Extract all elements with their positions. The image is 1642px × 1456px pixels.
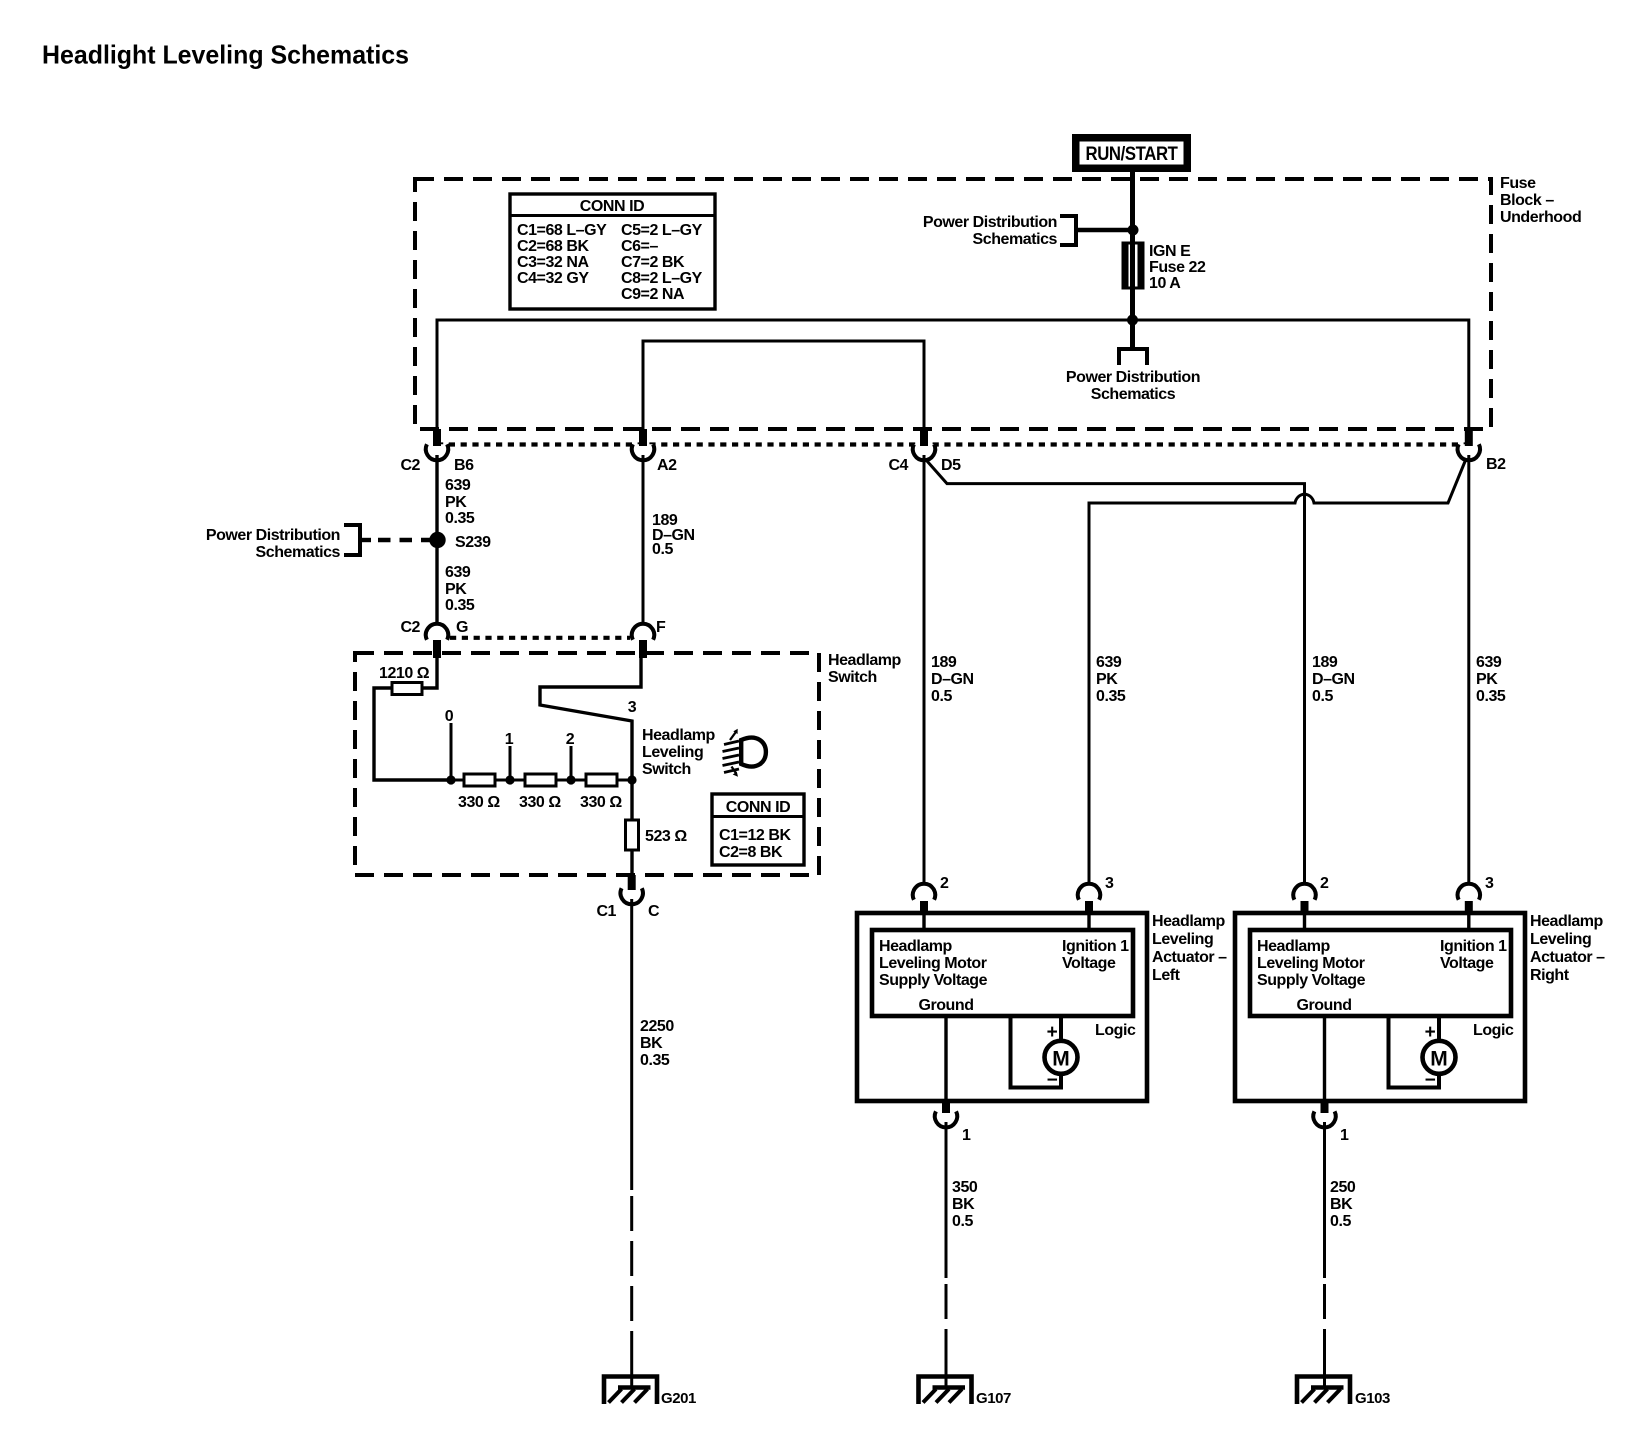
connector pin 2 right [1293, 875, 1329, 913]
svg-text:0.5: 0.5 [1312, 688, 1333, 705]
svg-text:Schematics: Schematics [1091, 386, 1176, 403]
branch B2 to left actuator pin 3 with hop [1089, 459, 1466, 888]
svg-text:Ignition 1: Ignition 1 [1062, 938, 1129, 955]
svg-text:0.5: 0.5 [1330, 1213, 1351, 1230]
ground wire left actuator [944, 1016, 947, 1101]
svg-text:C2=68 BK: C2=68 BK [517, 238, 589, 255]
svg-text:639: 639 [445, 477, 471, 494]
connector B2 [1458, 429, 1507, 473]
svg-text:B6: B6 [454, 457, 474, 474]
svg-text:1210 Ω: 1210 Ω [379, 665, 430, 682]
svg-text:330 Ω: 330 Ω [458, 794, 500, 811]
svg-text:Actuator –: Actuator – [1530, 949, 1605, 966]
svg-text:Ground: Ground [1296, 997, 1351, 1014]
svg-text:Leveling: Leveling [642, 744, 703, 761]
svg-text:Leveling: Leveling [1530, 931, 1591, 948]
svg-text:Headlamp: Headlamp [828, 652, 902, 669]
ground G107 [919, 1377, 1012, 1408]
connector pin 3 left [1078, 875, 1114, 913]
bus wire lower y341 [643, 341, 924, 446]
svg-text:Leveling: Leveling [1152, 931, 1213, 948]
svg-text:C1=12 BK: C1=12 BK [719, 827, 791, 844]
wire 639 PK B6 to S239 to G [435, 455, 438, 626]
svg-text:Underhood: Underhood [1500, 209, 1581, 226]
ground G103 [1297, 1377, 1390, 1408]
svg-text:G103: G103 [1355, 1390, 1390, 1407]
headlamp leveling switch icon [723, 729, 766, 777]
svg-text:2: 2 [940, 875, 949, 892]
svg-text:639: 639 [445, 564, 471, 581]
svg-text:D–GN: D–GN [931, 671, 974, 688]
svg-text:A2: A2 [657, 457, 677, 474]
svg-text:Headlight Leveling Schematics: Headlight Leveling Schematics [42, 40, 409, 70]
svg-text:C2: C2 [400, 619, 420, 636]
svg-text:G107: G107 [976, 1390, 1011, 1407]
svg-text:Leveling Motor: Leveling Motor [1257, 955, 1365, 972]
svg-text:Left: Left [1152, 967, 1181, 984]
svg-text:−: − [1425, 1070, 1436, 1091]
wire RUN/START to fuse [1130, 172, 1135, 243]
svg-text:3: 3 [1485, 875, 1494, 892]
switch resistor ladder [445, 708, 637, 811]
svg-text:BK: BK [1330, 1196, 1353, 1213]
svg-text:S239: S239 [455, 534, 491, 551]
svg-text:0.5: 0.5 [931, 688, 952, 705]
svg-text:Ignition 1: Ignition 1 [1440, 938, 1507, 955]
svg-text:3: 3 [628, 699, 637, 716]
resistor 330 #1 [464, 774, 495, 786]
svg-text:Logic: Logic [1473, 1022, 1514, 1039]
headlamp switch dashed box [355, 653, 819, 875]
right actuator outer box [1235, 913, 1525, 1101]
wire 639 PK B2 to right actuator pin 3 [1467, 455, 1470, 888]
node 3 junction [627, 775, 636, 784]
svg-text:C2=8 BK: C2=8 BK [719, 844, 783, 861]
connector pin 2 left [913, 875, 949, 913]
svg-text:Voltage: Voltage [1440, 955, 1494, 972]
svg-text:639: 639 [1096, 654, 1122, 671]
svg-text:M: M [1430, 1048, 1448, 1071]
svg-text:0.35: 0.35 [445, 510, 475, 527]
svg-text:Logic: Logic [1095, 1022, 1136, 1039]
svg-text:G: G [456, 619, 468, 636]
svg-text:C1: C1 [596, 903, 616, 920]
wire 250 BK to G103 [1323, 1122, 1326, 1278]
svg-text:2: 2 [1320, 875, 1329, 892]
RUN/START box [1072, 134, 1191, 172]
label fuse block underhood [1500, 175, 1581, 226]
svg-text:523 Ω: 523 Ω [645, 828, 687, 845]
svg-text:M: M [1052, 1048, 1070, 1071]
power distribution schematics bracket (mid left) [206, 525, 433, 561]
right actuator inner box [1250, 930, 1511, 1016]
svg-text:3: 3 [1105, 875, 1114, 892]
svg-text:Headlamp: Headlamp [1257, 938, 1331, 955]
junction dot at fuse top [1128, 225, 1139, 236]
svg-text:Ground: Ground [918, 997, 973, 1014]
svg-text:D5: D5 [941, 457, 961, 474]
wire label 639 PK lower [445, 564, 475, 614]
svg-text:Headlamp: Headlamp [1530, 913, 1604, 930]
svg-text:250: 250 [1330, 1179, 1356, 1196]
svg-text:0.5: 0.5 [652, 541, 673, 558]
connector C2/G [400, 619, 468, 658]
svg-text:Leveling Motor: Leveling Motor [879, 955, 987, 972]
svg-text:Voltage: Voltage [1062, 955, 1116, 972]
bus wire upper y320 [437, 320, 1469, 446]
svg-text:G201: G201 [661, 1390, 696, 1407]
svg-text:Schematics: Schematics [973, 231, 1058, 248]
wire 189 D-GN A2 to F [642, 455, 645, 626]
svg-text:Power Distribution: Power Distribution [206, 527, 340, 544]
CONN ID table (fuse block) [510, 194, 715, 309]
svg-text:2250: 2250 [640, 1018, 674, 1035]
svg-text:C2: C2 [400, 457, 420, 474]
ground G201 [604, 1377, 696, 1408]
svg-text:0.35: 0.35 [640, 1052, 670, 1069]
connector F [632, 619, 666, 658]
svg-text:Switch: Switch [642, 761, 691, 778]
svg-text:PK: PK [1476, 671, 1498, 688]
svg-text:0.5: 0.5 [952, 1213, 973, 1230]
wire 2250 BK to G201 [630, 899, 633, 1190]
resistor 330 #3 [586, 774, 617, 786]
svg-text:189: 189 [1312, 654, 1338, 671]
svg-text:0.35: 0.35 [445, 597, 475, 614]
svg-text:Switch: Switch [828, 669, 877, 686]
dotted connector row line [437, 442, 1469, 446]
svg-text:Fuse 22: Fuse 22 [1149, 259, 1206, 276]
svg-text:BK: BK [952, 1196, 975, 1213]
left actuator outer box [857, 913, 1147, 1101]
svg-text:Supply Voltage: Supply Voltage [879, 972, 988, 989]
svg-text:Actuator –: Actuator – [1152, 949, 1227, 966]
svg-text:1: 1 [1340, 1127, 1349, 1144]
svg-text:CONN ID: CONN ID [580, 198, 644, 215]
connector C2/B6 [400, 429, 474, 474]
svg-text:PK: PK [445, 494, 467, 511]
right actuator label [1530, 913, 1605, 984]
svg-text:CONN ID: CONN ID [726, 799, 790, 816]
svg-text:Power Distribution: Power Distribution [1066, 369, 1200, 386]
dotted line between G and F [450, 636, 630, 640]
left actuator label [1152, 913, 1227, 984]
splice S239 [429, 532, 445, 548]
wire fuse to bus [1130, 288, 1135, 320]
svg-text:Right: Right [1530, 967, 1570, 984]
svg-text:+: + [1425, 1022, 1436, 1043]
svg-text:IGN E: IGN E [1149, 243, 1191, 260]
fuse IGN E Fuse 22 10 A [1123, 243, 1143, 288]
svg-text:Headlamp: Headlamp [642, 727, 716, 744]
motor M left [1011, 1016, 1078, 1091]
connector C4/D5 [888, 429, 961, 474]
svg-text:639: 639 [1476, 654, 1502, 671]
svg-text:RUN/START: RUN/START [1086, 144, 1179, 165]
svg-text:B2: B2 [1486, 456, 1506, 473]
fuse block underhood dashed box [415, 179, 1491, 429]
right actuator inner text [1257, 938, 1507, 1014]
power distribution off-page symbol [1119, 349, 1147, 365]
power distribution schematics bracket (top) [923, 214, 1133, 248]
motor M right [1389, 1016, 1456, 1091]
svg-text:+: + [1047, 1022, 1058, 1043]
switch wiper from F [540, 658, 641, 780]
svg-text:C: C [648, 903, 660, 920]
svg-text:C8=2 L–GY: C8=2 L–GY [621, 270, 703, 287]
svg-text:2: 2 [566, 731, 575, 748]
svg-text:330 Ω: 330 Ω [519, 794, 561, 811]
svg-text:PK: PK [445, 581, 467, 598]
svg-text:0.35: 0.35 [1096, 688, 1126, 705]
svg-text:C1=68 L–GY: C1=68 L–GY [517, 222, 607, 239]
svg-text:330 Ω: 330 Ω [580, 794, 622, 811]
left actuator inner box [872, 930, 1133, 1016]
branch D5 to right actuator pin 2 [927, 461, 1305, 888]
svg-text:350: 350 [952, 1179, 978, 1196]
svg-text:C3=32 NA: C3=32 NA [517, 254, 589, 271]
svg-text:C7=2 BK: C7=2 BK [621, 254, 685, 271]
wire 189 D-GN C4 to left actuator pin 2 [923, 455, 926, 888]
resistor 330 #2 [525, 774, 556, 786]
connector pin 1 right [1313, 1101, 1349, 1144]
svg-text:BK: BK [640, 1035, 663, 1052]
wire junction to off-page symbol [1130, 320, 1135, 349]
CONN ID table (switch) [712, 794, 804, 865]
resistor 1210 ohm [374, 658, 451, 780]
svg-text:C4=32 GY: C4=32 GY [517, 270, 589, 287]
svg-text:C4: C4 [888, 457, 908, 474]
wire 350 BK to G107 [945, 1122, 948, 1278]
label power distribution schematics (bottom) [1066, 369, 1200, 403]
svg-text:−: − [1047, 1070, 1058, 1091]
svg-text:10 A: 10 A [1149, 275, 1181, 292]
svg-text:C5=2 L–GY: C5=2 L–GY [621, 222, 703, 239]
svg-text:0: 0 [445, 708, 454, 725]
pin wires into inner box [922, 913, 925, 930]
svg-text:F: F [656, 619, 666, 636]
svg-text:Supply Voltage: Supply Voltage [1257, 972, 1366, 989]
svg-text:1: 1 [505, 731, 514, 748]
svg-text:Headlamp: Headlamp [879, 938, 953, 955]
svg-text:Power Distribution: Power Distribution [923, 214, 1057, 231]
connector C1/C [596, 875, 660, 920]
svg-text:Block –: Block – [1500, 192, 1554, 209]
headlamp leveling switch label [642, 727, 716, 778]
svg-text:C9=2 NA: C9=2 NA [621, 286, 685, 303]
svg-text:1: 1 [962, 1127, 971, 1144]
connector A2 [632, 429, 677, 474]
svg-text:0.35: 0.35 [1476, 688, 1506, 705]
svg-text:C6=–: C6=– [621, 238, 658, 255]
svg-text:D–GN: D–GN [1312, 671, 1355, 688]
svg-text:Headlamp: Headlamp [1152, 913, 1226, 930]
connector pin 3 right [1458, 875, 1494, 913]
svg-text:Fuse: Fuse [1500, 175, 1536, 192]
left actuator inner text [879, 938, 1129, 1014]
junction dot at bus [1127, 315, 1138, 326]
svg-text:Schematics: Schematics [256, 544, 341, 561]
resistor 523 ohm [626, 780, 688, 875]
svg-text:189: 189 [931, 654, 957, 671]
ground wire right actuator [1323, 1016, 1326, 1101]
pin wires into inner box [1303, 913, 1306, 930]
connector pin 1 left [935, 1101, 971, 1144]
svg-text:PK: PK [1096, 671, 1118, 688]
